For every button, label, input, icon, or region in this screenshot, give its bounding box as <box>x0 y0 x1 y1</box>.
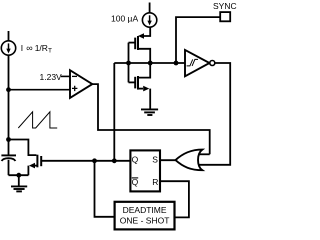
svg-text:100 µA: 100 µA <box>111 14 138 24</box>
svg-text:R: R <box>152 177 158 187</box>
svg-text:DEADTIME: DEADTIME <box>123 205 167 215</box>
svg-text:S: S <box>152 155 158 165</box>
svg-text:I∞1/RT: I∞1/RT <box>21 43 52 55</box>
svg-text:ONE - SHOT: ONE - SHOT <box>120 215 170 225</box>
svg-text:1.23V: 1.23V <box>40 72 63 82</box>
svg-text:SYNC: SYNC <box>213 1 237 11</box>
svg-text:Q: Q <box>132 177 139 187</box>
svg-text:Q: Q <box>132 155 139 165</box>
